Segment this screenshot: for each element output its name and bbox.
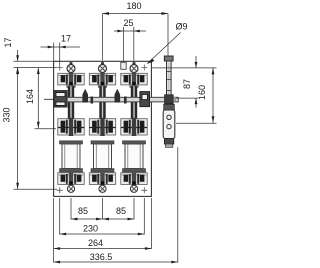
svg-text:17: 17 xyxy=(61,34,71,44)
svg-text:87: 87 xyxy=(182,79,192,89)
svg-text:25: 25 xyxy=(123,18,133,28)
svg-text:180: 180 xyxy=(126,1,141,11)
svg-text:330: 330 xyxy=(2,107,12,122)
svg-text:164: 164 xyxy=(25,89,35,104)
svg-text:264: 264 xyxy=(88,238,103,248)
svg-text:230: 230 xyxy=(83,224,98,234)
svg-text:85: 85 xyxy=(78,206,88,216)
svg-text:85: 85 xyxy=(116,206,126,216)
svg-text:Ø9: Ø9 xyxy=(175,22,187,32)
svg-text:160: 160 xyxy=(197,85,207,100)
svg-text:17: 17 xyxy=(3,37,13,47)
svg-text:336.5: 336.5 xyxy=(90,252,113,262)
